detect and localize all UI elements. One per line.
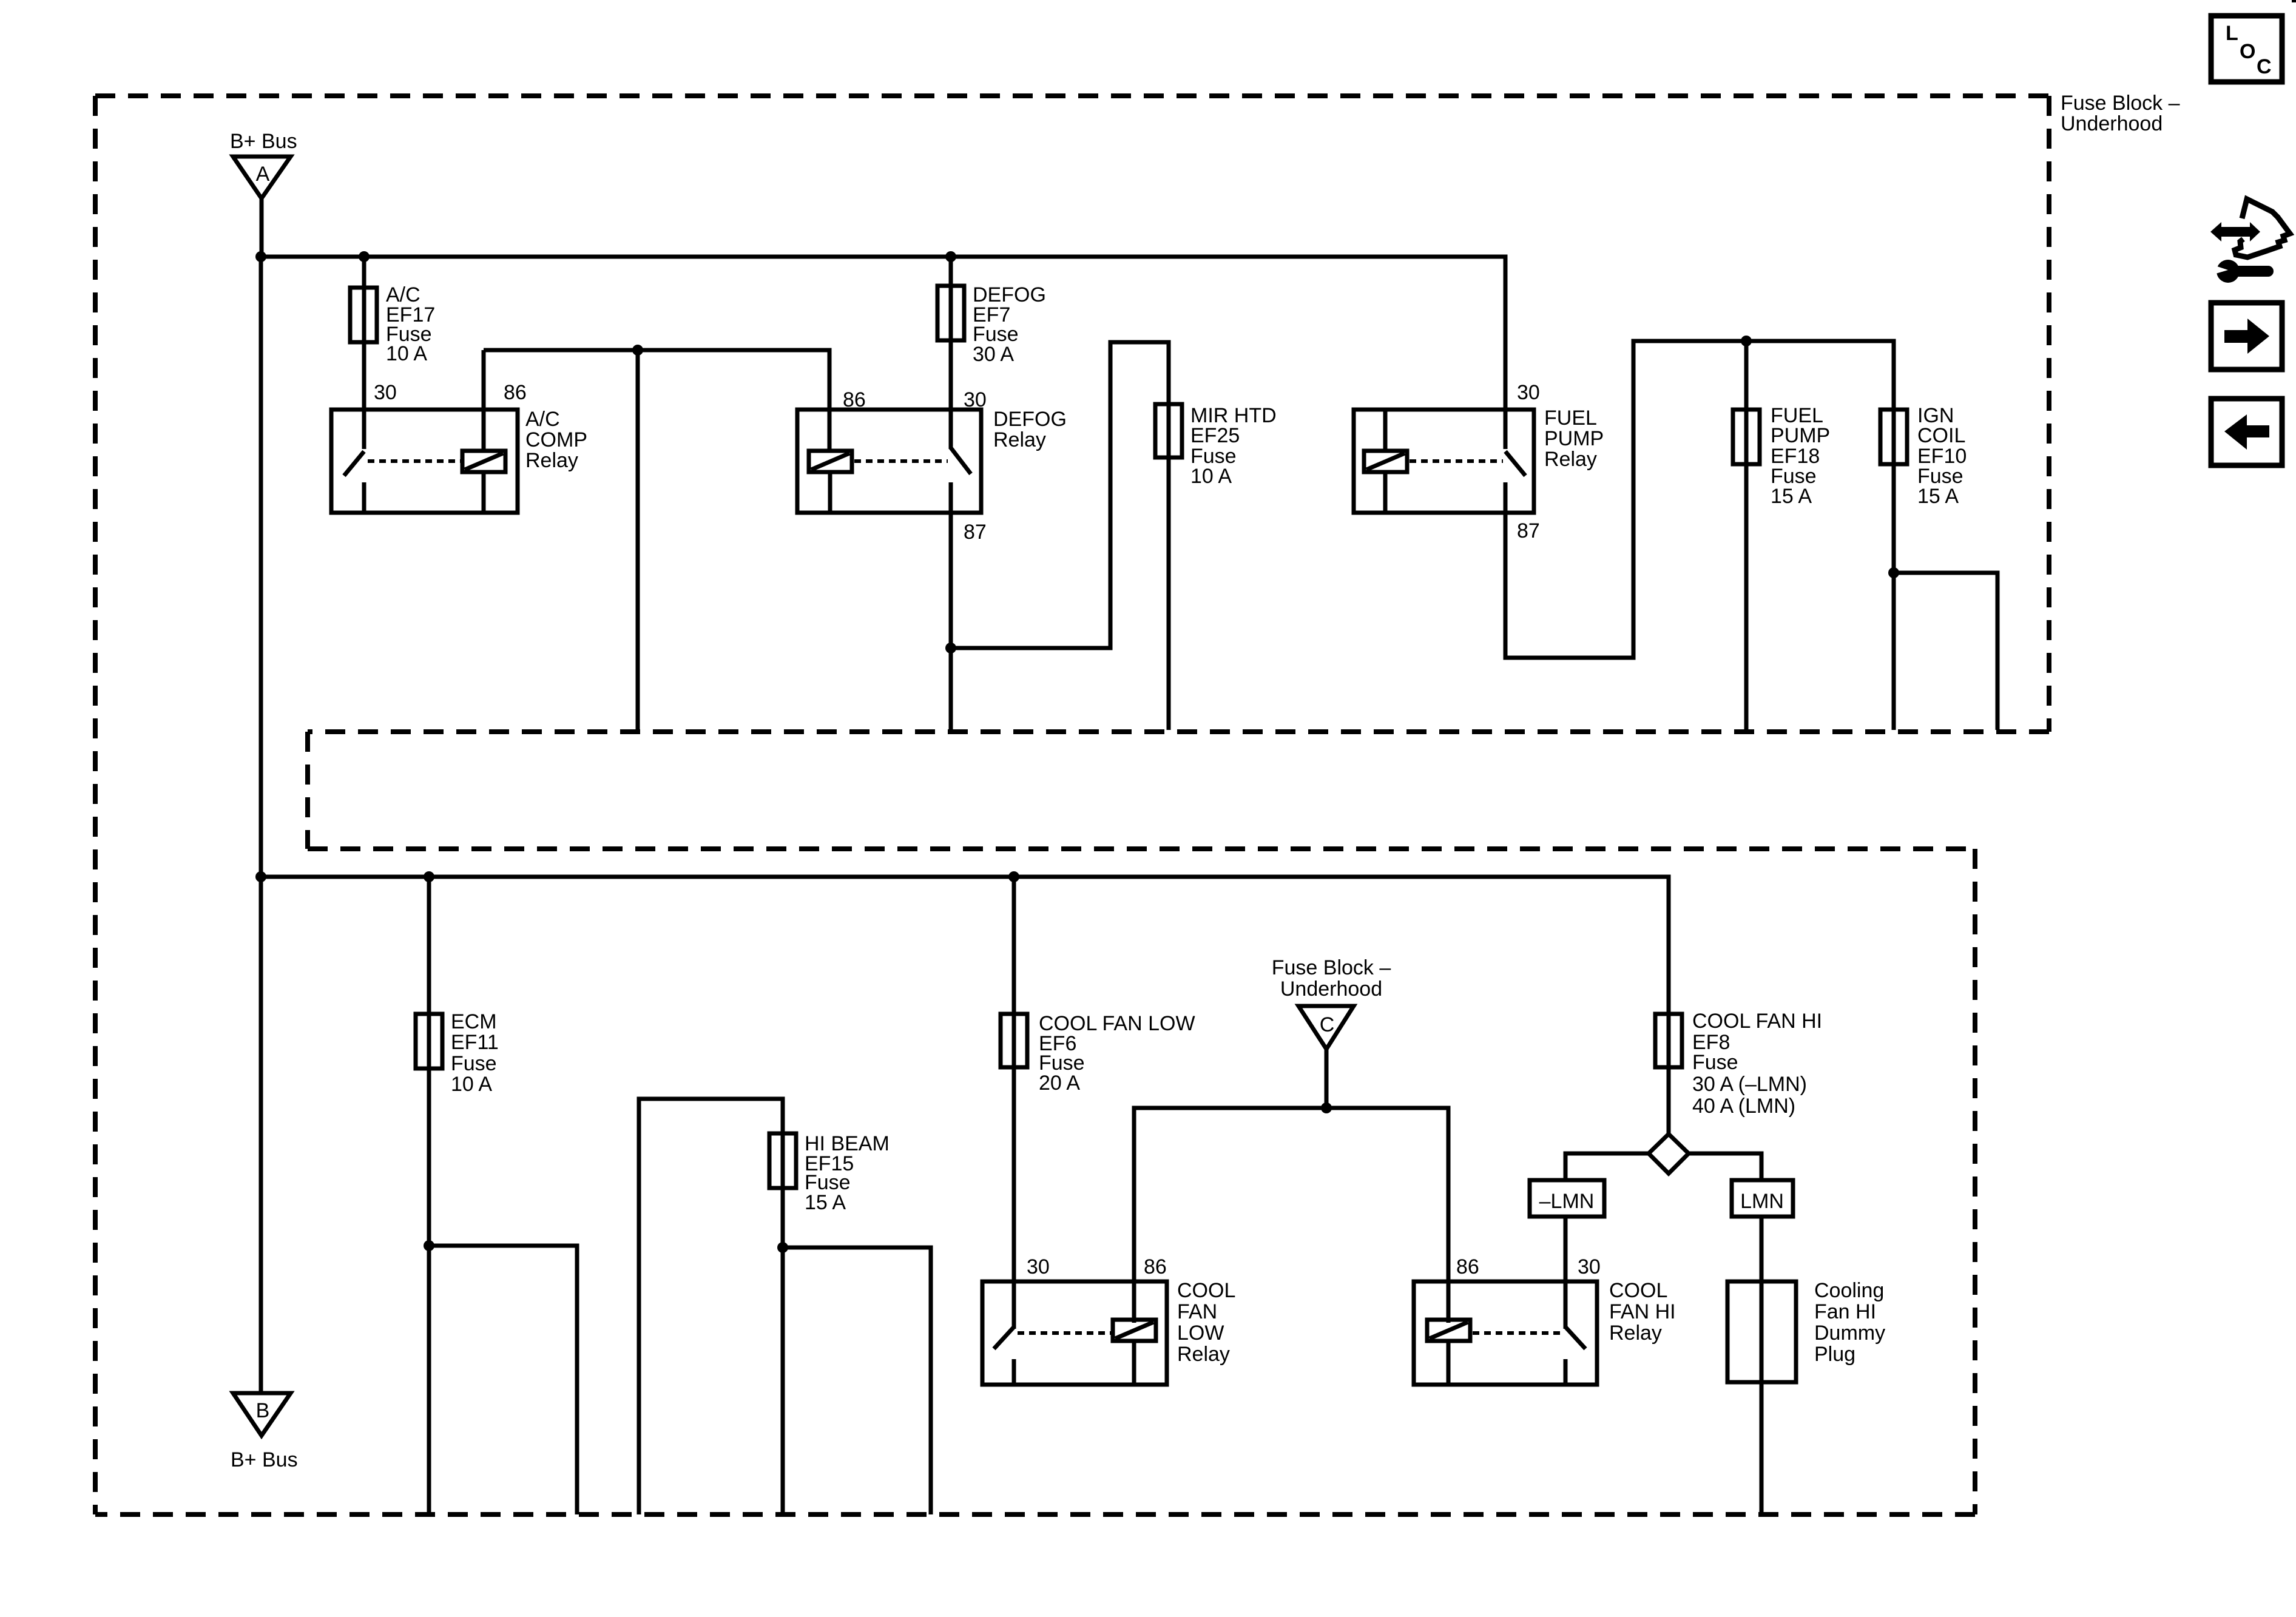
label fuse EF15 [805,1132,890,1214]
relay A/C COMP box [331,410,518,513]
svg-text:A/C: A/C [525,408,560,431]
svg-text:Relay: Relay [993,428,1046,451]
label fuse EF25 [1190,404,1277,488]
fuse EF18 [1733,410,1760,464]
svg-text:COOL FAN HI: COOL FAN HI [1692,1010,1822,1033]
wire 86 net A/C to DEFOG [484,350,829,449]
icon LOC box [2211,16,2282,82]
relay COOL FAN HI coil [1427,1320,1470,1385]
svg-text:Relay: Relay [1177,1343,1230,1366]
relay COOL FAN HI box [1414,1281,1597,1385]
node IGN COIL branch [1888,567,1899,578]
relay FUEL PUMP box [1354,410,1534,513]
component Cooling Fan HI Dummy Plug [1727,1281,1796,1382]
wire B+ bus top horizontal to fuel pump relay pin 30 [261,257,1505,449]
svg-text:Underhood: Underhood [2061,112,2163,135]
fuse EF15 [769,1133,796,1188]
svg-text:15 A: 15 A [1917,485,1959,508]
wire B+ bus lower horizontal [261,877,1669,1014]
connector -LMN box [1530,1180,1604,1217]
node DEFOG 87 branch [945,643,956,653]
wire FUEL PUMP 87 to fuses [1505,341,1894,658]
label fuse EF8 [1692,1010,1822,1118]
svg-text:30: 30 [374,381,397,404]
fuse block underhood upper dashed box [95,96,2049,1514]
svg-text:EF11: EF11 [451,1031,499,1054]
fuse EF25 [1155,404,1182,457]
svg-text:COMP: COMP [525,428,587,451]
wire IGN COIL branch right [1894,573,1997,730]
relay COOL FAN LOW coil [1113,1320,1156,1385]
node ECM tap [424,871,434,882]
svg-text:LMN: LMN [1740,1190,1784,1213]
svg-text:15 A: 15 A [1771,485,1812,508]
svg-text:COIL: COIL [1917,424,1965,447]
label fuse EF10 [1917,404,1967,508]
relay A/C COMP switch [344,451,364,513]
wire triangle C stem [1325,1049,1329,1108]
relay COOL FAN HI link [1473,1331,1563,1335]
relay DEFOG box [797,410,981,513]
svg-text:Relay: Relay [525,449,578,472]
svg-text:Plug: Plug [1814,1343,1855,1366]
wire 86 net drop [636,350,640,730]
svg-text:PUMP: PUMP [1544,427,1604,450]
node EF6 tap [1008,871,1019,882]
label COOL FAN LOW Relay [1177,1279,1235,1366]
icon arrow back box [2211,399,2282,465]
svg-text:30 A: 30 A [973,343,1014,366]
relay DEFOG link [854,459,948,463]
node bus-left [255,251,266,262]
wire ECM branch right [429,1246,577,1514]
icon service tool (arrow, outline, wrench) [2210,199,2290,283]
svg-text:Dummy: Dummy [1814,1322,1885,1345]
fuse EF11 [416,1014,442,1068]
relay COOL FAN LOW box [982,1281,1167,1385]
label A/C COMP Relay [525,408,587,472]
relay COOL FAN LOW link [1018,1331,1111,1335]
svg-text:10 A: 10 A [386,342,427,365]
node lower bus left [255,871,266,882]
fuse EF8 [1655,1014,1682,1067]
svg-text:FAN: FAN [1177,1300,1217,1323]
svg-text:B+ Bus: B+ Bus [231,1448,298,1471]
svg-text:86: 86 [1144,1255,1167,1278]
connector LMN box [1732,1180,1793,1217]
label Fuse Block - Underhood top right [2061,92,2180,135]
relay FUEL PUMP switch [1505,451,1525,476]
svg-text:30: 30 [1578,1255,1601,1278]
label fuse EF6 [1039,1012,1195,1095]
svg-text:C: C [2257,55,2272,78]
svg-text:86: 86 [504,381,527,404]
wire -LMN to relay 30 [1564,1217,1568,1329]
label fuse EF18 [1771,404,1830,508]
wire LMN to dummy plug [1760,1217,1764,1514]
svg-text:30: 30 [1517,381,1540,404]
relay COOL FAN HI switch [1565,1327,1585,1385]
svg-text:Fuse: Fuse [451,1052,497,1075]
wire triangle A stem [260,198,264,257]
wire DEFOG 87 drop [949,482,953,730]
wire EF18 branch [1744,341,1749,730]
svg-text:DEFOG: DEFOG [993,408,1067,431]
svg-text:C: C [1320,1013,1335,1036]
relay FUEL PUMP link [1410,459,1503,463]
node A/C fuse tap [359,251,370,262]
relay COOL FAN LOW switch [994,1327,1014,1385]
svg-text:–LMN: –LMN [1539,1190,1595,1213]
svg-text:Fan HI: Fan HI [1814,1300,1876,1323]
svg-text:10 A: 10 A [451,1073,492,1096]
svg-text:40 A (LMN): 40 A (LMN) [1692,1095,1795,1118]
node C junction [1321,1102,1332,1113]
node EF18 tap [1741,336,1752,346]
splice diamond [1649,1134,1689,1173]
svg-text:O: O [2240,40,2255,63]
wire A/C fuse branch [362,257,366,449]
fuse EF7 [937,286,964,340]
svg-text:A: A [256,163,270,186]
svg-text:COOL: COOL [1609,1279,1667,1302]
svg-text:30: 30 [1027,1255,1050,1278]
wire COOL FAN LOW branch [1012,877,1016,1329]
relay DEFOG coil [809,451,852,513]
fuse EF10 [1880,410,1907,464]
svg-text:LOW: LOW [1177,1322,1224,1345]
svg-text:L: L [2226,22,2238,45]
label DEFOG Relay [993,408,1067,451]
connector triangle C [1298,1006,1354,1049]
relay DEFOG switch [951,448,971,474]
svg-text:Fuse Block –: Fuse Block – [1272,956,1391,979]
page corner mark [2292,0,2296,2]
relay FUEL PUMP coil [1364,410,1407,513]
svg-text:Relay: Relay [1544,448,1597,471]
wire splice to -LMN [1565,1153,1649,1180]
label fuse EF11 [451,1010,499,1096]
svg-text:20 A: 20 A [1039,1072,1080,1095]
connector triangle A [233,157,291,198]
node HI BEAM branch [777,1242,788,1253]
node 86 net [632,345,643,356]
fuse EF17 [350,288,377,342]
svg-text:15 A: 15 A [805,1191,846,1214]
wire HI BEAM branch right [783,1247,931,1514]
label FUEL PUMP Relay [1544,407,1604,471]
svg-text:30 A (–LMN): 30 A (–LMN) [1692,1073,1807,1096]
wire 86 net cool fans [1134,1108,1448,1323]
fuse block underhood lower dashed box [95,849,1975,1514]
svg-text:B: B [256,1399,270,1422]
wire HI BEAM feed [639,1099,783,1514]
svg-text:86: 86 [1456,1255,1479,1278]
wire B+ bus vertical left [259,257,263,1393]
svg-text:ECM: ECM [451,1010,497,1033]
svg-text:Cooling: Cooling [1814,1279,1884,1302]
node ECM branch [424,1240,434,1251]
label Cooling Fan HI Dummy Plug [1814,1279,1885,1366]
svg-text:10 A: 10 A [1190,465,1232,488]
label COOL FAN HI Relay [1609,1279,1676,1345]
svg-text:PUMP: PUMP [1771,424,1830,447]
svg-text:87: 87 [1517,519,1540,542]
relay A/C COMP link [368,459,461,463]
label Fuse Block - Underhood middle [1272,956,1391,1001]
svg-text:Underhood: Underhood [1280,977,1382,1001]
wire ECM branch [427,877,431,1514]
connector triangle B [233,1393,291,1436]
svg-text:EF25: EF25 [1190,424,1240,447]
svg-text:COOL: COOL [1177,1279,1235,1302]
icon arrow next box [2211,303,2282,370]
svg-text:B+ Bus: B+ Bus [230,130,297,153]
label fuse EF17 [386,283,435,365]
wire DEFOG fuse branch [949,257,953,449]
svg-text:FUEL: FUEL [1544,407,1597,430]
wire IGN COIL drop [1892,573,1896,730]
wire splice to LMN [1689,1153,1761,1180]
label fuse EF7 [973,283,1046,366]
fuse EF6 [1001,1014,1027,1067]
svg-text:FAN HI: FAN HI [1609,1300,1676,1323]
svg-text:87: 87 [964,521,987,544]
svg-text:Fuse Block –: Fuse Block – [2061,92,2180,115]
relay A/C COMP coil [462,350,505,513]
node DEFOG fuse tap [945,251,956,262]
svg-text:Fuse: Fuse [1692,1051,1738,1074]
wire COOL FAN HI fuse feed [1667,1014,1671,1134]
wire DEFOG 87 to MIR HTD fuse [951,342,1169,730]
svg-text:Relay: Relay [1609,1322,1662,1345]
